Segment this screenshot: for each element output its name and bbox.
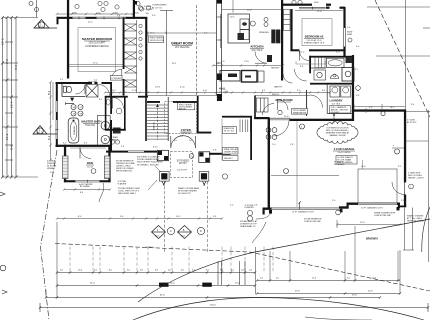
driveway curve A (steep) — [138, 219, 430, 302]
stairs: rails — [145, 96, 147, 141]
floor tag circles mud — [266, 128, 277, 140]
stairs: centerline arrow — [157, 104, 159, 140]
svg-text:11x13: 11x13 — [87, 166, 94, 168]
window sill marks bedroom2 top — [296, 61, 326, 64]
driveway curve B (bottom arc) — [133, 298, 424, 320]
boxed note: field verify great room — [149, 36, 164, 43]
base cabinets: sink run — [220, 71, 240, 82]
svg-text:COFFERED CEILING: COFFERED CEILING — [85, 45, 109, 48]
refrigerator dark — [271, 30, 280, 44]
svg-text:AT STOOP: AT STOOP — [407, 121, 417, 124]
svg-text:9x17 ISLD: 9x17 ISLD — [252, 50, 263, 52]
wall oven dark — [267, 55, 272, 62]
hall dim ticks row y92 extra slashes — [112, 91, 319, 93]
door arc: bedroom2 — [300, 51, 310, 61]
wall: bath left exterior — [56, 82, 58, 147]
wall: WC divider — [62, 96, 85, 98]
svg-text:FIELD VERIFY PLACEMENT: FIELD VERIFY PLACEMENT — [137, 161, 164, 164]
door arc: master suite entry — [112, 69, 122, 79]
svg-text:SEE ELEVATIONS: SEE ELEVATIONS — [116, 170, 133, 173]
powder room walls — [124, 96, 126, 130]
boxed note: garage slab — [336, 156, 357, 165]
dim line den south — [63, 188, 111, 190]
leader circles at garage west — [247, 210, 252, 215]
svg-text:19'-2: 19'-2 — [1, 38, 5, 45]
dimension line C y297.5 — [45, 296, 381, 298]
column anchors — [162, 182, 166, 186]
tub: soaker — [68, 118, 79, 143]
witness lines right rows — [270, 226, 398, 281]
tag circle den — [91, 169, 96, 174]
shower: mud set — [86, 85, 98, 98]
svg-text:WRAP COLUMN BASE: WRAP COLUMN BASE — [178, 187, 200, 190]
towel bar — [66, 103, 75, 105]
circled 13 tag — [336, 210, 341, 215]
svg-text:7R @ 7 3/4: 7R @ 7 3/4 — [224, 131, 235, 133]
wall: master bedroom top with windows — [57, 17, 136, 25]
holdown ticks — [269, 207, 400, 214]
curb curve right edge — [422, 207, 430, 252]
vanity: master bath — [98, 116, 111, 146]
wall: east of entry — [209, 153, 231, 155]
svg-text:GREAT ROOM: GREAT ROOM — [171, 42, 193, 46]
wall: y83.5 bath2 south — [310, 83, 354, 85]
grid line top-left — [36, 0, 38, 18]
wall: powder south — [105, 129, 126, 131]
wall: bath2 mid y69 — [311, 67, 326, 69]
svg-text:9'-0: 9'-0 — [5, 59, 9, 64]
wall: garage east x405 — [404, 109, 406, 207]
svg-text:W/ OWNER + BUILDER: W/ OWNER + BUILDER — [137, 164, 159, 166]
wall: garage north y119.7 — [290, 119, 354, 121]
tag circle C — [167, 227, 174, 234]
pier: entry west — [157, 150, 168, 160]
wall: bedroom2 west x291.5 — [290, 9, 292, 51]
vanity bath2 — [314, 70, 326, 80]
revision cloud garage — [317, 121, 358, 143]
wall: laundry west thin — [326, 85, 328, 114]
wall: foyer east x197.5 — [197, 96, 199, 133]
wall: stair north cap — [147, 101, 160, 103]
svg-text:6'-2: 6'-2 — [47, 135, 51, 140]
vanity: bath2 right — [342, 68, 354, 82]
toilet: master WC — [64, 86, 72, 92]
wall: foyer north — [173, 101, 197, 103]
wall: bedroom2 south y50 — [290, 49, 345, 51]
wall: garage north left segment — [254, 117, 269, 119]
svg-text:6x7 TILE: 6x7 TILE — [332, 103, 341, 105]
sink: master 2 — [101, 135, 109, 143]
svg-text:SH: SH — [146, 13, 149, 15]
garage door 14ft leaf — [272, 208, 340, 210]
attic access triangle — [70, 98, 74, 102]
svg-text:WOOD FLOOR: WOOD FLOOR — [150, 40, 164, 42]
wall: den east — [108, 146, 110, 182]
garage right column notes — [407, 120, 417, 124]
tag circle bed2 east — [348, 38, 352, 42]
closet tag circles — [139, 24, 142, 60]
wall: den south — [64, 180, 111, 182]
wall: great room upper-left corner — [133, 0, 135, 18]
section marker 1/A6.1 — [34, 20, 57, 29]
boxed note: wood beam above — [178, 103, 195, 110]
section marker B/A6.1 diamond — [178, 226, 192, 239]
circled 5 — [300, 124, 305, 129]
dimension line A y272.5 — [56, 271, 256, 273]
wall: kitchen/bedroom2 divider x282 — [281, 0, 283, 81]
appliance box 2 — [240, 30, 249, 40]
door: mud to garage — [270, 118, 290, 120]
svg-text:A6.1: A6.1 — [181, 234, 186, 237]
svg-text:GARAGE / HOUSE: GARAGE / HOUSE — [329, 134, 346, 137]
dimension line: mid horizontal y92.5 — [104, 91, 331, 93]
wall: master bedroom left exterior — [67, 0, 69, 79]
dim line y224 right — [336, 220, 401, 228]
cooktop box 1 — [240, 19, 249, 30]
svg-text:IN GARAGE: IN GARAGE — [334, 163, 345, 166]
wall: front east jamb — [397, 203, 400, 205]
window: den south — [75, 180, 99, 183]
entry walk edges — [171, 152, 193, 178]
svg-text:KITCHEN: KITCHEN — [251, 45, 264, 49]
svg-text:16R DN: 16R DN — [154, 122, 156, 130]
svg-text:5x5 STOOP: 5x5 STOOP — [177, 170, 188, 172]
garage door 16ft leaf — [358, 203, 397, 205]
svg-text:6'-8: 6'-8 — [14, 65, 18, 70]
door arc: mud closet — [263, 104, 275, 116]
misc dimension texts great room/hall — [60, 10, 415, 207]
pantry door arc — [255, 51, 267, 63]
wall: bath south / den north — [56, 145, 113, 147]
dimension text: left rotated — [1, 38, 19, 150]
svg-text:AT 24" OC: AT 24" OC — [152, 7, 163, 10]
powder fixtures — [106, 99, 110, 105]
svg-text:DRIVEWAY: DRIVEWAY — [366, 238, 379, 241]
dimension line D y280.5 right — [256, 279, 400, 281]
marker square top closet — [134, 1, 137, 4]
wall: house east x352.5 — [352, 55, 354, 112]
door arc: laundry hall — [310, 95, 323, 108]
section marker 2/A6.1 — [33, 126, 57, 135]
frame verticals for dim block — [46, 222, 400, 298]
hall door arc — [295, 69, 307, 81]
svg-text:A6.1: A6.1 — [39, 26, 45, 29]
circled tag mud — [278, 110, 282, 114]
lot line dash-dot left — [41, 150, 58, 320]
wall: hall south jog — [197, 132, 212, 134]
porch column west — [160, 172, 170, 182]
dimension line E y293.5 right — [256, 292, 401, 294]
wall: mud west x255 — [254, 96, 256, 120]
svg-text:MASTER BATH: MASTER BATH — [81, 120, 101, 124]
planter notes left — [47, 161, 57, 171]
svg-text:2 SIDES: 2 SIDES — [144, 9, 153, 11]
entry double door arcs — [171, 136, 183, 148]
svg-text:31x23 GRND: 31x23 GRND — [337, 152, 350, 154]
svg-text:STONE VENEER WRAP: STONE VENEER WRAP — [137, 158, 160, 161]
circled tag 2 at entry — [189, 154, 194, 159]
downspout curl den — [99, 183, 104, 202]
svg-text:FOYER: FOYER — [181, 128, 191, 132]
fixture: bath2 shower bell — [331, 75, 339, 79]
svg-text:16'1 CEILING: 16'1 CEILING — [175, 46, 190, 49]
dryer — [341, 86, 351, 97]
kitchen grid line — [232, 0, 234, 13]
wall: closet strip right — [145, 18, 147, 97]
bath interior texts — [63, 82, 103, 102]
svg-text:13'-8: 13'-8 — [155, 87, 161, 89]
boxed note: wood beam wrap — [292, 109, 308, 115]
dashed projection: column footings — [163, 182, 165, 253]
column: great room right pair — [216, 0, 218, 96]
property dashed line right — [375, 0, 430, 117]
garage interior grid line — [296, 121, 298, 207]
column notes — [118, 157, 200, 196]
garage door 14ft header — [271, 175, 339, 177]
great room window wall marks right — [217, 17, 222, 63]
svg-text:40" HIGH TYP: 40" HIGH TYP — [178, 193, 192, 195]
wall: den west — [64, 145, 66, 183]
counter front line — [213, 65, 283, 67]
label: POWDER — [110, 76, 122, 81]
svg-text:D: D — [200, 229, 202, 233]
tag circle near bath2 — [356, 86, 361, 91]
svg-text:WRAP ABOVE: WRAP ABOVE — [293, 111, 307, 114]
window: bath left wall — [55, 101, 58, 139]
svg-text:SETBACK: SETBACK — [145, 246, 155, 249]
tick marks on mid dim line additions — [147, 10, 405, 111]
svg-text:14 FT GARAGE DOOR: 14 FT GARAGE DOOR — [292, 211, 314, 214]
wall: master bath north — [56, 82, 93, 84]
closet cells butler — [284, 10, 291, 31]
svg-text:MUD ROOM: MUD ROOM — [276, 98, 293, 102]
window: bedroom2 east — [344, 28, 346, 47]
counters right of range — [258, 71, 264, 82]
left edge glyphs — [0, 192, 5, 196]
circled 1 gate — [409, 184, 414, 189]
lockers — [257, 98, 269, 112]
svg-text:5'-0: 5'-0 — [10, 145, 14, 150]
svg-text:EXTENDED: EXTENDED — [177, 161, 190, 163]
hall nook arcs — [283, 74, 292, 83]
wall: stair block x251 — [250, 116, 252, 160]
svg-text:MUD SET: MUD SET — [88, 82, 98, 84]
svg-text:A6.1: A6.1 — [37, 132, 43, 135]
tub: bath2 — [327, 58, 345, 67]
tag circles above den — [110, 140, 114, 144]
svg-text:POWDER: POWDER — [111, 78, 121, 80]
svg-text:3 CAR GARAGE: 3 CAR GARAGE — [334, 147, 355, 151]
gate notes right — [407, 172, 424, 223]
wall: jog x352.5 — [352, 110, 354, 121]
svg-text:DEN: DEN — [87, 161, 93, 165]
wall: bath2 north y56.5 — [309, 56, 352, 58]
small arc bottom right — [305, 317, 372, 320]
label: covered porch — [79, 183, 93, 188]
window: front left of entry — [128, 151, 144, 153]
setback dashed line — [55, 244, 430, 292]
svg-text:A6.1: A6.1 — [155, 234, 160, 237]
svg-text:8'-0: 8'-0 — [80, 192, 83, 194]
svg-text:13'-4: 13'-4 — [10, 101, 14, 108]
wall: bath/powder divider x111 — [110, 82, 112, 114]
wall: front entry south — [106, 151, 128, 153]
dim tick on 14ft door — [299, 203, 301, 210]
witness lines row A — [70, 247, 273, 273]
leader lines column notes — [155, 166, 161, 172]
svg-text:C: C — [170, 229, 172, 233]
svg-text:SOAKER: SOAKER — [73, 125, 76, 135]
tag circle kitchen — [250, 21, 255, 26]
svg-text:ENTRY: ENTRY — [179, 163, 187, 165]
dimension line y218 — [56, 217, 223, 219]
wall: garage north-east y110.5 — [354, 109, 406, 111]
wall: bedroom2 north — [281, 4, 345, 9]
svg-text:OUTRIGGERS: OUTRIGGERS — [152, 5, 167, 7]
svg-text:PANTRY: PANTRY — [274, 86, 283, 89]
base cabinets: range 48 — [242, 71, 258, 83]
pier: entry east — [199, 152, 210, 163]
window: bedroom2 north — [299, 7, 326, 10]
gate door arc east — [392, 182, 405, 195]
downspout leader curl — [252, 222, 266, 243]
stairs: treads — [147, 105, 168, 139]
section marker 4/A6.1 diamond — [152, 226, 166, 239]
window: master bedroom top sashes — [72, 17, 126, 20]
wall: powder left hatched — [105, 96, 107, 130]
kitchen island — [228, 14, 250, 43]
garage door 16ft surround — [358, 169, 397, 203]
svg-text:ABOVE: ABOVE — [179, 108, 187, 111]
door arc: mud — [278, 100, 289, 111]
door arc: den north — [80, 148, 91, 159]
wall: bath2 west x310 — [309, 56, 311, 74]
basement stair treads — [240, 120, 250, 133]
svg-text:HALL: HALL — [219, 87, 226, 91]
svg-text:BENCH: BENCH — [272, 94, 280, 96]
porch column east — [199, 172, 209, 182]
floor transition: great room south — [148, 95, 217, 97]
boxed label: stairs down — [223, 127, 237, 134]
wall: hall north y96.5 — [105, 96, 128, 98]
wall: bedroom2 east — [343, 7, 345, 56]
dimension line F y307.5 overall — [39, 303, 429, 312]
soffit lines master south — [69, 64, 123, 66]
boxed note: laundry cabinets — [330, 106, 351, 114]
tag circle garage center — [284, 169, 289, 174]
svg-text:164'-0: 164'-0 — [210, 305, 217, 307]
door arc: WC — [76, 85, 86, 95]
beam centerline dashed — [196, 5, 198, 95]
note: TV above garage — [334, 161, 345, 166]
washer — [330, 86, 340, 97]
dimension string left of bath — [49, 81, 53, 162]
svg-text:WINE/BEV: WINE/BEV — [259, 32, 270, 34]
boxed notes: wine — [223, 148, 239, 155]
svg-text:AT GRADE: AT GRADE — [80, 185, 90, 188]
svg-text:VERIFY AT GRADE: VERIFY AT GRADE — [407, 220, 424, 223]
svg-text:BEDROOM #2: BEDROOM #2 — [305, 35, 324, 39]
svg-text:SEAT: SEAT — [347, 33, 353, 36]
svg-text:16 FT GARAGE DOOR: 16 FT GARAGE DOOR — [361, 206, 383, 209]
svg-text:STONE: STONE — [144, 6, 152, 8]
svg-text:PILASTER: PILASTER — [245, 206, 255, 209]
svg-text:SEE DETAIL 4/A6.1: SEE DETAIL 4/A6.1 — [118, 192, 137, 195]
ceiling tray: master bedroom — [78, 28, 116, 72]
svg-text:PLANTER: PLANTER — [118, 182, 127, 185]
svg-text:LAUNDRY: LAUNDRY — [329, 99, 342, 103]
svg-text:SEE A2.2: SEE A2.2 — [224, 157, 233, 160]
dim tick garage right — [392, 147, 404, 149]
dimension lines: left vertical strings — [1, 16, 38, 179]
svg-text:5'-0: 5'-0 — [50, 172, 53, 174]
sink: master 1 — [101, 121, 109, 129]
window jamb strips den — [63, 156, 110, 179]
linen dark box — [113, 128, 121, 134]
svg-text:8'-4: 8'-4 — [47, 90, 51, 95]
note: cold joint east — [304, 212, 396, 223]
wall: hall x296 — [306, 90, 308, 116]
svg-text:UNDER STAIR: UNDER STAIR — [224, 151, 238, 154]
beam line great room — [166, 11, 168, 96]
cloud leader — [333, 113, 335, 124]
counter edge left of island — [220, 14, 222, 48]
window tag circles top — [75, 0, 302, 11]
notes west of garage door — [240, 205, 258, 228]
svg-text:2'-10: 2'-10 — [132, 90, 138, 92]
svg-text:CURB STONE CAP: CURB STONE CAP — [374, 214, 392, 217]
svg-text:MASTER BEDROOM: MASTER BEDROOM — [82, 37, 113, 41]
svg-text:TILE FLR: TILE FLR — [85, 125, 95, 127]
svg-text:HINGES + LATCH: HINGES + LATCH — [408, 177, 424, 180]
svg-text:11'-2: 11'-2 — [5, 133, 9, 140]
svg-text:13'0 FLAT CLG: 13'0 FLAT CLG — [307, 39, 322, 42]
wall: garage west x268.7 — [268, 118, 270, 209]
door arc: shower — [99, 85, 110, 96]
fixture tag circles bath — [71, 105, 83, 117]
svg-text:CURB STONE CAP: CURB STONE CAP — [304, 220, 322, 223]
svg-text:PANTRY: PANTRY — [271, 67, 280, 70]
dimension line above master wall — [56, 13, 134, 15]
tag on garage opening — [381, 111, 385, 115]
wall: garage front west jamb — [263, 208, 272, 210]
closet shelving cells — [125, 20, 137, 93]
tag circle D — [197, 227, 204, 234]
mud room floor line — [255, 95, 310, 97]
wall: den north (under bath) opening line — [70, 147, 106, 149]
dimension line B y285.5 — [56, 284, 256, 286]
footing projections — [218, 261, 245, 285]
site lines right — [367, 0, 430, 262]
door arc: powder — [113, 98, 124, 109]
ceiling dashed box: foyer — [165, 102, 197, 134]
linen cells bath2 — [315, 57, 325, 68]
wall: front step pieces — [339, 203, 358, 209]
ceiling tray: bedroom2 — [302, 19, 332, 46]
wall: y116.5 stair north — [222, 116, 252, 118]
svg-text:GRADE AWAY 5%: GRADE AWAY 5% — [240, 225, 256, 228]
svg-text:SHARED BATH TILE: SHARED BATH TILE — [304, 41, 325, 44]
svg-text:4'-11: 4'-11 — [180, 87, 185, 89]
stone veneer note right of den — [116, 161, 136, 173]
wall: closet strip left — [123, 18, 125, 70]
